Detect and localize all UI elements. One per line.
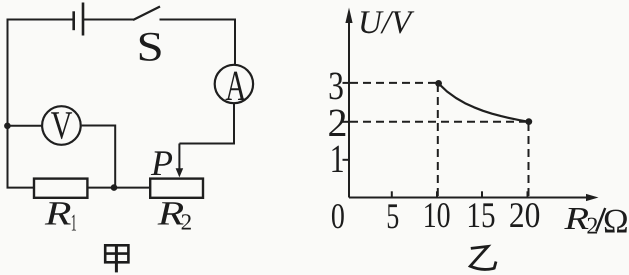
svg-text:V: V <box>51 103 73 148</box>
wire R2 left to junction <box>114 187 150 189</box>
rheostat R2 box <box>150 179 203 198</box>
x ticks <box>392 191 528 197</box>
y-axis (U) with arrow <box>348 20 350 198</box>
data point (20,2) <box>525 118 532 125</box>
svg-text:0: 0 <box>331 196 345 236</box>
label 甲 (drawn) <box>105 245 128 272</box>
svg-text:S: S <box>137 25 164 71</box>
svg-text:20: 20 <box>509 195 541 235</box>
data point (10,3) <box>435 80 442 87</box>
svg-text:2: 2 <box>586 213 598 239</box>
svg-text:Ω: Ω <box>603 203 629 241</box>
svg-text:U/V: U/V <box>358 5 415 41</box>
y ticks <box>343 83 350 160</box>
dashed guide U=3 <box>350 82 436 84</box>
wire voltmeter right, down to bottom junction <box>82 126 116 188</box>
axis label R2/Ohm <box>563 200 628 241</box>
svg-text:10: 10 <box>423 195 451 235</box>
svg-text:5: 5 <box>386 196 399 236</box>
slider arrow into R2 <box>176 144 184 178</box>
svg-text:P: P <box>150 143 173 183</box>
resistor R1 box <box>34 179 87 198</box>
svg-text:R: R <box>44 196 72 233</box>
svg-text:15: 15 <box>466 195 495 235</box>
svg-text:2: 2 <box>181 210 193 235</box>
wire ammeter down and left to slider <box>179 104 234 144</box>
junction node (bottom) <box>111 184 118 191</box>
battery <box>74 3 83 36</box>
switch S blade <box>133 7 160 21</box>
wire top-left to battery <box>7 19 74 21</box>
dashed guide U=2 <box>350 121 526 123</box>
svg-text:1: 1 <box>71 210 77 236</box>
wire bottom-left to R1 <box>7 187 35 189</box>
voltmeter V <box>42 106 81 145</box>
svg-text:1: 1 <box>330 136 345 181</box>
x-axis (R2) with arrow <box>349 197 588 199</box>
dashed vertical R2=10 <box>437 84 439 197</box>
label 乙 (drawn) <box>470 246 496 269</box>
U-R2 curve <box>439 84 529 122</box>
dashed vertical R2=20 <box>528 123 530 197</box>
wire battery to switch <box>84 19 134 21</box>
wire junction to voltmeter <box>7 125 41 127</box>
wire R1 right to junction <box>87 187 114 189</box>
junction node (left) <box>4 123 11 130</box>
wire switch to right corner, down to ammeter <box>160 20 236 65</box>
wire left vertical <box>7 20 9 188</box>
svg-text:A: A <box>225 63 246 110</box>
ammeter A <box>215 65 253 103</box>
